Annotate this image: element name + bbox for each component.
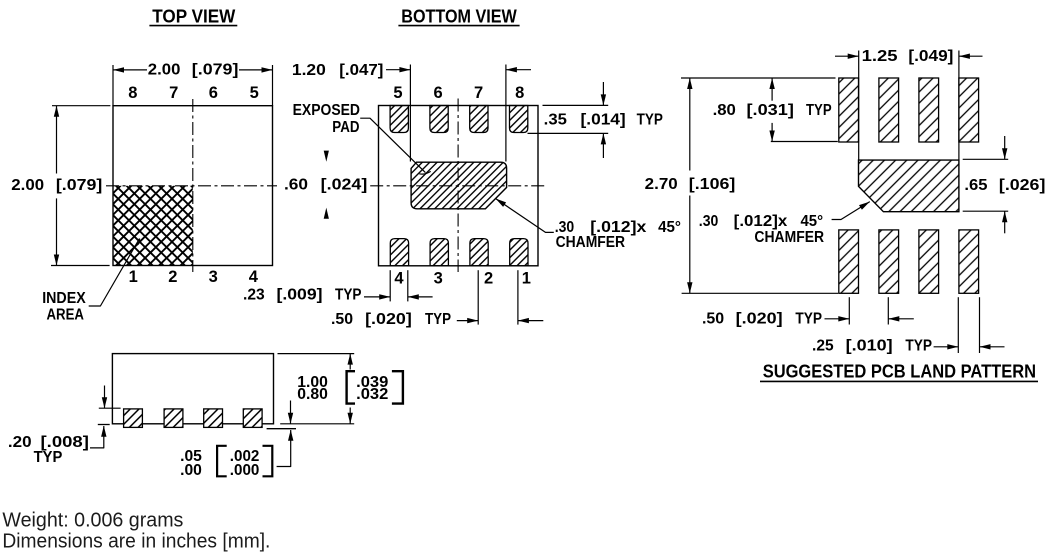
svg-text:[.079]: [.079] xyxy=(56,177,102,194)
svg-text:TYP: TYP xyxy=(905,337,932,354)
svg-text:TYP: TYP xyxy=(34,449,63,466)
svg-text:Weight: 0.006 grams: Weight: 0.006 grams xyxy=(2,510,183,532)
svg-text:6: 6 xyxy=(434,84,443,102)
svg-text:[.014]: [.014] xyxy=(581,111,626,128)
svg-text:8: 8 xyxy=(515,84,524,102)
svg-text:INDEX: INDEX xyxy=(42,290,86,307)
svg-text:3: 3 xyxy=(209,268,218,286)
svg-text:7: 7 xyxy=(169,84,178,102)
svg-text:4: 4 xyxy=(394,270,404,288)
svg-text:45°: 45° xyxy=(801,213,824,230)
svg-text:2: 2 xyxy=(168,268,177,286)
svg-text:.50: .50 xyxy=(331,311,353,328)
svg-text:.000: .000 xyxy=(230,462,260,479)
svg-text:PAD: PAD xyxy=(332,119,359,136)
svg-text:[.026]: [.026] xyxy=(999,177,1046,194)
svg-text:[.079]: [.079] xyxy=(192,62,239,79)
svg-text:[.106]: [.106] xyxy=(689,176,736,193)
svg-text:1.25: 1.25 xyxy=(862,48,898,65)
svg-text:5: 5 xyxy=(393,84,402,102)
svg-text:6: 6 xyxy=(209,84,218,102)
svg-text:5: 5 xyxy=(250,84,259,102)
svg-text:[.031]: [.031] xyxy=(747,102,794,119)
svg-text:BOTTOM VIEW: BOTTOM VIEW xyxy=(401,6,517,26)
svg-text:TYP: TYP xyxy=(335,286,362,303)
svg-text:.50: .50 xyxy=(702,311,724,328)
svg-text:CHAMFER: CHAMFER xyxy=(754,229,824,246)
svg-text:2: 2 xyxy=(484,270,493,288)
svg-text:[.049]: [.049] xyxy=(908,48,953,65)
svg-text:[.047]: [.047] xyxy=(339,62,383,79)
svg-text:0.80: 0.80 xyxy=(297,386,328,403)
svg-text:.60: .60 xyxy=(284,177,308,194)
svg-text:2.70: 2.70 xyxy=(645,176,678,193)
svg-text:4: 4 xyxy=(249,268,259,286)
svg-text:7: 7 xyxy=(474,84,483,102)
svg-text:.00: .00 xyxy=(180,462,202,479)
svg-text:2.00: 2.00 xyxy=(148,62,181,79)
svg-text:TYP: TYP xyxy=(637,111,663,128)
svg-text:Dimensions are in inches [mm].: Dimensions are in inches [mm]. xyxy=(2,531,270,553)
svg-text:AREA: AREA xyxy=(47,307,84,324)
svg-text:3: 3 xyxy=(434,270,443,288)
svg-text:TYP: TYP xyxy=(425,311,451,328)
svg-text:[.010]: [.010] xyxy=(846,337,893,354)
svg-text:[.012]x: [.012]x xyxy=(734,213,788,230)
svg-text:[.020]: [.020] xyxy=(365,311,412,328)
svg-text:TYP: TYP xyxy=(795,311,822,328)
svg-text:[.020]: [.020] xyxy=(736,311,783,328)
svg-text:8: 8 xyxy=(128,84,137,102)
svg-text:SUGGESTED PCB LAND PATTERN: SUGGESTED PCB LAND PATTERN xyxy=(763,361,1036,381)
svg-text:.80: .80 xyxy=(713,102,736,119)
svg-text:EXPOSED: EXPOSED xyxy=(293,102,360,119)
svg-text:.65: .65 xyxy=(964,177,987,194)
svg-text:1: 1 xyxy=(522,270,531,288)
svg-text:TYP: TYP xyxy=(806,102,832,119)
svg-text:.20: .20 xyxy=(8,434,32,451)
svg-text:1: 1 xyxy=(129,268,138,286)
svg-text:.23: .23 xyxy=(243,286,265,303)
svg-text:45°: 45° xyxy=(658,219,681,236)
svg-text:2.00: 2.00 xyxy=(11,177,44,194)
svg-text:.35: .35 xyxy=(544,111,568,128)
svg-text:[.024]: [.024] xyxy=(321,177,368,194)
svg-text:CHAMFER: CHAMFER xyxy=(556,234,626,251)
svg-text:.25: .25 xyxy=(812,337,834,354)
svg-text:1.20: 1.20 xyxy=(292,62,326,79)
svg-text:TOP VIEW: TOP VIEW xyxy=(152,6,235,26)
svg-text:.30: .30 xyxy=(699,213,719,230)
svg-text:.032: .032 xyxy=(356,386,388,403)
svg-text:[.009]: [.009] xyxy=(277,286,323,303)
